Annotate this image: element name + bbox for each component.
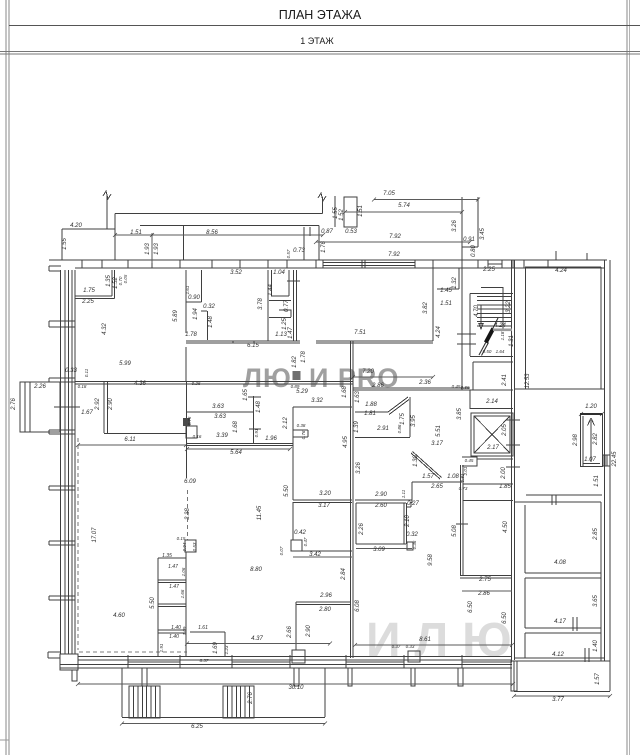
bottom exterior wall <box>60 655 512 668</box>
svg-text:3.52: 3.52 <box>230 270 242 276</box>
svg-text:0.89: 0.89 <box>291 384 300 389</box>
shaft room with arrow <box>580 414 603 467</box>
svg-text:0.05: 0.05 <box>123 274 128 283</box>
svg-text:0.94: 0.94 <box>182 542 187 551</box>
svg-text:1.61: 1.61 <box>185 285 190 294</box>
staircase U1 <box>457 268 513 409</box>
svg-text:3.63: 3.63 <box>214 414 226 420</box>
svg-text:2.12: 2.12 <box>283 417 289 430</box>
svg-text:3.65: 3.65 <box>593 595 599 607</box>
svg-text:3.20: 3.20 <box>319 491 331 497</box>
svg-text:1.48: 1.48 <box>256 401 262 413</box>
svg-text:0.91: 0.91 <box>254 428 259 437</box>
svg-text:0.33: 0.33 <box>406 644 415 649</box>
room 1.75x2.25 <box>75 270 115 299</box>
svg-text:1.09: 1.09 <box>182 626 187 635</box>
svg-text:1.51: 1.51 <box>130 230 142 236</box>
svg-text:1.47: 1.47 <box>169 584 179 590</box>
canopy and entrance outline <box>62 196 478 260</box>
svg-text:0.91: 0.91 <box>463 237 475 243</box>
svg-text:3.26: 3.26 <box>356 462 362 474</box>
svg-text:2.86: 2.86 <box>477 591 490 597</box>
svg-text:1.20: 1.20 <box>585 404 597 410</box>
svg-text:6.50: 6.50 <box>502 612 508 624</box>
svg-text:9.58: 9.58 <box>428 554 434 566</box>
svg-text:1.11: 1.11 <box>401 489 406 498</box>
svg-text:1.08: 1.08 <box>447 474 459 480</box>
svg-text:8.61: 8.61 <box>419 637 431 643</box>
svg-text:1.23: 1.23 <box>224 645 229 654</box>
svg-text:1.67: 1.67 <box>81 410 93 416</box>
svg-text:1.76: 1.76 <box>321 241 327 253</box>
svg-text:2.60: 2.60 <box>374 503 387 509</box>
svg-text:1.32: 1.32 <box>452 277 458 289</box>
svg-text:7.20: 7.20 <box>362 369 374 375</box>
svg-text:0.53: 0.53 <box>345 229 357 235</box>
svg-text:6.15: 6.15 <box>247 343 259 349</box>
svg-text:0.73: 0.73 <box>459 486 468 491</box>
balcony hatched railings <box>129 686 254 718</box>
column box 0.33 <box>408 651 420 662</box>
svg-text:8.80: 8.80 <box>250 567 262 573</box>
svg-text:2.85: 2.85 <box>593 528 599 541</box>
svg-text:2.25: 2.25 <box>81 299 94 305</box>
svg-text:1.06: 1.06 <box>181 567 186 576</box>
svg-text:1 ЭТАЖ: 1 ЭТАЖ <box>300 36 334 46</box>
svg-text:1.57: 1.57 <box>595 673 601 685</box>
svg-text:4.37: 4.37 <box>251 636 263 642</box>
svg-text:2.65: 2.65 <box>430 484 443 490</box>
svg-text:1.07: 1.07 <box>584 457 596 463</box>
svg-text:1.51: 1.51 <box>440 301 452 307</box>
svg-text:1.39: 1.39 <box>354 421 360 433</box>
svg-text:30.10: 30.10 <box>288 685 304 691</box>
svg-text:11.45: 11.45 <box>257 505 263 520</box>
svg-text:2.76: 2.76 <box>248 692 254 705</box>
svg-text:0.37: 0.37 <box>392 644 401 649</box>
svg-text:5.51: 5.51 <box>436 425 442 437</box>
svg-text:5.89: 5.89 <box>173 310 179 322</box>
svg-text:22.45: 22.45 <box>612 451 618 468</box>
svg-text:1.68: 1.68 <box>233 421 239 433</box>
svg-text:2.76: 2.76 <box>11 398 17 411</box>
svg-text:1.47: 1.47 <box>168 564 178 570</box>
svg-text:3.26: 3.26 <box>452 220 458 232</box>
svg-text:1.82: 1.82 <box>292 356 298 368</box>
svg-text:2.25: 2.25 <box>482 267 495 273</box>
svg-text:1.68: 1.68 <box>342 386 348 398</box>
svg-text:2.26: 2.26 <box>33 384 46 390</box>
svg-text:4.70: 4.70 <box>474 305 480 317</box>
room 2.96x2.80 <box>292 602 350 663</box>
svg-text:7.92: 7.92 <box>388 252 400 258</box>
svg-text:0.15: 0.15 <box>177 536 186 541</box>
svg-text:2.90: 2.90 <box>374 492 387 498</box>
svg-text:4.08: 4.08 <box>554 560 566 566</box>
svg-text:4.60: 4.60 <box>113 613 125 619</box>
svg-text:2.17: 2.17 <box>486 445 499 451</box>
svg-text:1.35: 1.35 <box>106 275 112 287</box>
svg-text:0.45: 0.45 <box>452 384 461 389</box>
left annex 2.26x2.76 <box>20 382 80 432</box>
svg-text:4.24: 4.24 <box>555 268 567 274</box>
svg-text:3.78: 3.78 <box>258 298 264 310</box>
svg-text:0.80: 0.80 <box>471 245 477 257</box>
svg-text:2.26: 2.26 <box>359 523 365 536</box>
svg-text:3.45: 3.45 <box>480 228 486 240</box>
svg-text:1.18: 1.18 <box>500 331 505 340</box>
corner block bottom-left <box>48 652 78 681</box>
svg-text:2.66: 2.66 <box>287 626 293 639</box>
svg-text:1.04: 1.04 <box>273 270 285 276</box>
svg-text:0.73: 0.73 <box>293 248 305 254</box>
svg-text:8.37: 8.37 <box>200 658 209 663</box>
svg-text:7.05: 7.05 <box>383 191 395 197</box>
svg-text:1.91: 1.91 <box>159 643 164 652</box>
svg-text:1.66: 1.66 <box>180 589 185 598</box>
svg-text:1.88: 1.88 <box>365 402 377 408</box>
svg-text:1.40: 1.40 <box>171 625 181 631</box>
central spine wall <box>351 341 354 658</box>
svg-text:0.18: 0.18 <box>78 384 87 389</box>
svg-text:3.63: 3.63 <box>212 404 224 410</box>
right spine wall <box>506 260 520 660</box>
svg-text:2.86: 2.86 <box>371 383 384 389</box>
svg-text:3.17: 3.17 <box>431 441 443 447</box>
svg-text:4.95: 4.95 <box>343 436 349 448</box>
svg-text:2.84: 2.84 <box>341 568 347 581</box>
svg-text:1.48: 1.48 <box>208 316 214 328</box>
stair flight solid <box>484 328 495 344</box>
svg-text:1.51: 1.51 <box>594 475 600 487</box>
svg-text:6.11: 6.11 <box>124 437 135 443</box>
svg-text:4.24: 4.24 <box>436 326 442 338</box>
svg-text:1.69: 1.69 <box>213 642 219 654</box>
svg-text:6.25: 6.25 <box>191 724 203 730</box>
svg-text:0.53: 0.53 <box>192 542 197 551</box>
svg-text:1.40: 1.40 <box>593 640 599 652</box>
svg-text:1.40: 1.40 <box>169 634 179 640</box>
svg-text:0.86: 0.86 <box>397 424 402 433</box>
pillar box 0.53 <box>344 197 357 227</box>
page frame <box>6 0 9 755</box>
svg-text:4.12: 4.12 <box>552 652 564 658</box>
left wall pilaster tabs <box>49 321 75 600</box>
svg-text:1.52: 1.52 <box>339 209 345 221</box>
svg-text:2.90: 2.90 <box>108 398 114 411</box>
svg-text:0.27: 0.27 <box>407 501 419 507</box>
wall junction boxes <box>186 426 197 438</box>
svg-text:1.85: 1.85 <box>499 484 511 490</box>
svg-text:3.77: 3.77 <box>552 697 564 703</box>
svg-text:0.87: 0.87 <box>321 229 333 235</box>
svg-text:1.96: 1.96 <box>265 436 277 442</box>
svg-text:2.14: 2.14 <box>485 399 498 405</box>
svg-text:6.50: 6.50 <box>468 601 474 613</box>
svg-text:5.64: 5.64 <box>230 450 242 456</box>
svg-text:1.78: 1.78 <box>301 351 307 363</box>
svg-text:0.50: 0.50 <box>483 349 492 354</box>
sanitary rooms stack <box>158 540 225 656</box>
svg-text:2.96: 2.96 <box>319 593 332 599</box>
svg-text:2.75: 2.75 <box>478 577 491 583</box>
svg-text:1.75: 1.75 <box>83 288 95 294</box>
svg-text:2.05: 2.05 <box>502 424 508 437</box>
svg-text:4.24: 4.24 <box>494 323 506 329</box>
svg-text:3.09: 3.09 <box>373 547 385 553</box>
svg-text:0.38: 0.38 <box>297 423 306 428</box>
svg-text:7.92: 7.92 <box>389 234 401 240</box>
terrace outline bottom right <box>514 661 610 692</box>
right wing rooms <box>514 251 610 691</box>
svg-text:5.50: 5.50 <box>150 597 156 609</box>
partitions near shaft <box>462 457 513 501</box>
svg-text:1.13: 1.13 <box>275 332 287 338</box>
svg-text:5.29: 5.29 <box>296 389 308 395</box>
left exterior wall (layered) <box>61 270 76 654</box>
svg-text:0.32: 0.32 <box>406 532 418 538</box>
svg-text:4.50: 4.50 <box>503 521 509 533</box>
svg-text:1.93: 1.93 <box>154 243 160 255</box>
svg-text:4.17: 4.17 <box>554 619 566 625</box>
svg-text:17.07: 17.07 <box>92 527 98 543</box>
svg-text:0.86: 0.86 <box>461 385 470 390</box>
svg-text:0.76: 0.76 <box>301 430 306 439</box>
svg-text:1.55: 1.55 <box>62 238 68 250</box>
svg-text:3.38: 3.38 <box>185 508 191 520</box>
svg-text:5.74: 5.74 <box>398 203 410 209</box>
svg-text:3.22: 3.22 <box>506 301 512 313</box>
svg-text:0.32: 0.32 <box>203 304 215 310</box>
svg-text:ЛЮ: ЛЮ <box>243 363 292 393</box>
svg-text:0.26: 0.26 <box>192 381 201 386</box>
svg-text:ПЛАН ЭТАЖА: ПЛАН ЭТАЖА <box>279 8 362 22</box>
svg-text:0.47: 0.47 <box>303 537 308 546</box>
svg-text:4.20: 4.20 <box>70 223 82 229</box>
svg-text:1.65: 1.65 <box>243 389 249 401</box>
door swing diagonal <box>411 452 462 504</box>
svg-text:5.08: 5.08 <box>452 525 458 537</box>
svg-text:1.35: 1.35 <box>162 553 172 559</box>
svg-text:3.85: 3.85 <box>457 408 463 420</box>
break marks <box>103 191 326 201</box>
svg-text:5.50: 5.50 <box>284 485 290 497</box>
svg-text:1.81: 1.81 <box>364 411 376 417</box>
svg-text:7.51: 7.51 <box>354 330 366 336</box>
svg-text:0.81: 0.81 <box>460 473 465 482</box>
svg-text:0.11: 0.11 <box>84 368 89 377</box>
svg-text:2.41: 2.41 <box>502 374 508 387</box>
column stubs below wall <box>142 661 517 691</box>
svg-text:1.78: 1.78 <box>185 332 197 338</box>
svg-text:0.75: 0.75 <box>187 416 192 425</box>
svg-text:1.93: 1.93 <box>145 243 151 255</box>
svg-text:0.36: 0.36 <box>412 540 417 549</box>
svg-text:3.32: 3.32 <box>311 398 323 404</box>
svg-text:2.10: 2.10 <box>405 515 411 528</box>
svg-text:2.80: 2.80 <box>318 607 331 613</box>
dashed boundaries <box>78 438 188 652</box>
svg-text:2.82: 2.82 <box>593 433 599 446</box>
svg-text:1.64: 1.64 <box>496 349 505 354</box>
svg-text:1.31: 1.31 <box>509 335 515 347</box>
svg-text:3.17: 3.17 <box>318 503 330 509</box>
svg-text:1.57: 1.57 <box>422 474 434 480</box>
svg-text:1.30: 1.30 <box>413 455 419 467</box>
svg-text:1.44: 1.44 <box>268 284 274 296</box>
svg-text:4.36: 4.36 <box>134 381 146 387</box>
svg-text:0.45: 0.45 <box>465 458 474 463</box>
svg-text:1.45: 1.45 <box>440 288 452 294</box>
svg-text:12.53: 12.53 <box>525 373 531 389</box>
svg-text:1.94: 1.94 <box>193 308 199 320</box>
svg-text:2.00: 2.00 <box>501 467 507 480</box>
svg-text:1.51: 1.51 <box>358 205 364 217</box>
svg-text:1.61: 1.61 <box>198 625 208 631</box>
svg-text:5.99: 5.99 <box>119 361 131 367</box>
svg-text:3.95: 3.95 <box>411 415 417 427</box>
mid horizontal wall <box>75 341 353 478</box>
svg-text:1.63: 1.63 <box>355 391 361 403</box>
svg-text:3.82: 3.82 <box>423 302 429 314</box>
hatched niche right wall <box>603 455 610 466</box>
svg-text:2.92: 2.92 <box>95 398 101 411</box>
central room 3.32x4.95 <box>291 407 352 551</box>
svg-text:2.91: 2.91 <box>376 426 389 432</box>
svg-text:0.57: 0.57 <box>286 249 291 258</box>
elevator shaft with X brace <box>471 413 513 456</box>
svg-text:6.09: 6.09 <box>184 479 196 485</box>
interior partitions center-left <box>186 268 459 381</box>
svg-text:2.36: 2.36 <box>418 380 431 386</box>
svg-text:1.75: 1.75 <box>400 413 406 425</box>
svg-text:0.77: 0.77 <box>284 300 290 312</box>
svg-text:8.56: 8.56 <box>206 230 218 236</box>
svg-text:0.07: 0.07 <box>279 546 284 555</box>
svg-text:0.33: 0.33 <box>65 368 77 374</box>
center-right partitions and door diagonal <box>353 388 512 578</box>
svg-text:2.90: 2.90 <box>306 625 312 638</box>
svg-text:6.08: 6.08 <box>355 600 361 612</box>
dimension lines <box>78 200 610 724</box>
top exterior wall <box>49 260 607 271</box>
window ticks right wing <box>552 495 589 662</box>
svg-text:1.47: 1.47 <box>288 327 294 339</box>
svg-text:4.32: 4.32 <box>102 323 108 335</box>
svg-text:0.16: 0.16 <box>193 434 202 439</box>
svg-text:2.98: 2.98 <box>573 434 579 447</box>
svg-text:0.42: 0.42 <box>294 530 306 536</box>
svg-text:3.42: 3.42 <box>309 552 321 558</box>
svg-text:0.90: 0.90 <box>188 295 200 301</box>
svg-text:3.39: 3.39 <box>216 433 228 439</box>
balcony outline <box>122 668 325 718</box>
svg-text:И PRO: И PRO <box>309 363 399 393</box>
